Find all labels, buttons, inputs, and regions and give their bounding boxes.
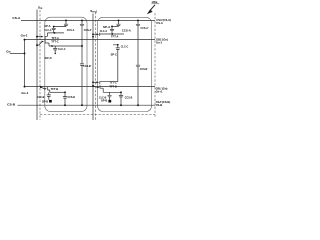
svg-text:SP-B: SP-B (101, 99, 108, 103)
svg-text:TFT-B: TFT-B (51, 87, 59, 91)
svg-text:CCS-A': CCS-A' (84, 28, 92, 32)
svg-text:TFT-B: TFT-B (109, 84, 117, 88)
svg-text:Gn-1: Gn-1 (21, 34, 28, 38)
svg-text:CCS-A: CCS-A (122, 28, 132, 32)
svg-text:Gn+1: Gn+1 (156, 90, 163, 94)
svg-text:CS-A: CS-A (12, 16, 21, 20)
svg-text:SP-C: SP-C (44, 56, 52, 60)
svg-text:CCS-A': CCS-A' (141, 26, 149, 30)
svg-text:TFT-C: TFT-C (51, 39, 59, 43)
svg-text:Gn-1: Gn-1 (156, 41, 163, 45)
svg-text:SP-C: SP-C (111, 52, 118, 56)
svg-text:CS-B: CS-B (7, 103, 16, 107)
svg-text:Sm+1: Sm+1 (90, 9, 98, 14)
svg-text:CLC-A: CLC-A (100, 29, 108, 33)
svg-text:Gn+2: Gn+2 (21, 91, 28, 95)
svg-text:CCS-B': CCS-B' (83, 64, 91, 68)
svg-text:Sm: Sm (38, 6, 42, 11)
svg-text:CLC-A: CLC-A (44, 28, 52, 32)
svg-text:CLC-C: CLC-C (58, 47, 66, 51)
svg-text:CS-A: CS-A (156, 21, 163, 25)
svg-text:CCS-B: CCS-B (68, 95, 76, 99)
svg-text:CS-B: CS-B (156, 103, 163, 107)
svg-text:CCS-B': CCS-B' (140, 67, 148, 71)
svg-text:Gn: Gn (6, 50, 10, 54)
svg-text:SP-B: SP-B (42, 100, 49, 104)
svg-text:TFT-A: TFT-A (111, 35, 119, 39)
svg-text:100a: 100a (152, 0, 158, 4)
svg-text:CCS-A: CCS-A (67, 28, 75, 32)
svg-text:CCS-B: CCS-B (125, 95, 133, 99)
svg-text:CLC-B: CLC-B (37, 95, 45, 99)
svg-text:CLC-C: CLC-C (121, 45, 129, 49)
